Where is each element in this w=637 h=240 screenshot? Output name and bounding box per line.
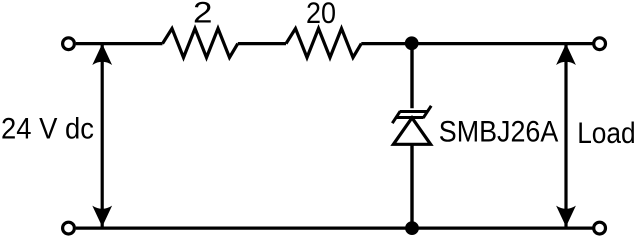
wire bottom: [76, 227, 593, 230]
wire diode top: [410, 44, 413, 109]
resistor R1 (2 ohm): [163, 29, 238, 58]
wire top left segment: [76, 42, 163, 45]
svg-text:Load: Load: [577, 117, 636, 150]
terminal bottom-left: [63, 222, 75, 234]
resistor R2 (20 ohm): [286, 29, 361, 58]
diode D1 triangle: [393, 118, 430, 145]
arrow 24V shaft: [101, 45, 104, 227]
terminal bottom-right: [594, 222, 606, 234]
svg-text:SMBJ26A: SMBJ26A: [439, 116, 559, 149]
arrow 24V head up: [92, 44, 112, 65]
wire top right segment: [361, 42, 593, 45]
diode D1 TVS cathode bar: [392, 106, 431, 123]
terminal top-right: [594, 38, 606, 50]
arrow 24V head down: [92, 206, 112, 227]
arrow Load head down: [556, 206, 576, 227]
wire between resistors: [238, 42, 286, 45]
svg-text:2: 2: [193, 0, 213, 30]
wire diode bottom: [410, 144, 413, 228]
svg-text:20: 20: [306, 0, 336, 30]
svg-text:24 V dc: 24 V dc: [1, 113, 94, 146]
node bottom junction: [405, 221, 419, 235]
arrow Load shaft: [564, 45, 567, 227]
terminal top-left: [63, 38, 75, 50]
node top junction: [405, 36, 419, 50]
arrow Load head up: [556, 44, 576, 65]
